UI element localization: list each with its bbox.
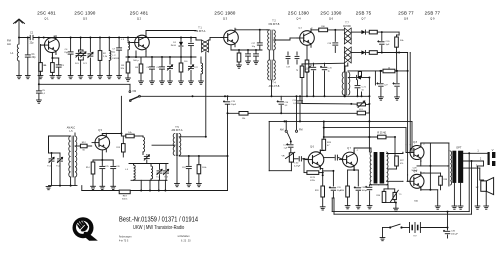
node C5 top <box>38 37 40 39</box>
svg-text:SOL: SOL <box>75 63 80 65</box>
svg-text:6. 23 . 53: 6. 23 . 53 <box>181 241 191 243</box>
wire OPT bars bottom <box>452 183 463 209</box>
wire dr primary bottom <box>372 184 379 186</box>
inductor L1 <box>11 38 22 79</box>
wire Q6 emitter <box>320 167 323 187</box>
wire Q2 collector to rail <box>146 31 196 35</box>
transistor Q6 <box>305 146 324 170</box>
svg-text:FM ZFT-A: FM ZFT-A <box>195 30 206 33</box>
resistor R2 <box>43 53 55 79</box>
wire osc top left <box>49 136 71 153</box>
capacitor C7 <box>111 37 121 79</box>
svg-text:R26: R26 <box>327 142 332 144</box>
wire B plus vertical x369 <box>368 78 370 153</box>
svg-text:C15: C15 <box>231 101 236 103</box>
svg-text:L1: L1 <box>11 51 14 55</box>
svg-text:R13: R13 <box>116 147 121 149</box>
capacitor C20d electro <box>320 63 332 97</box>
label FM Ant <box>7 39 11 46</box>
label C28 <box>412 167 419 172</box>
svg-text:R 8: R 8 <box>359 109 363 111</box>
capacitor C27 electro <box>377 70 389 100</box>
capacitor C8 <box>146 57 154 84</box>
svg-text:0,1: 0,1 <box>42 93 46 95</box>
svg-text:Q 2: Q 2 <box>137 17 142 21</box>
wire main bus 96 <box>140 95 369 97</box>
inductor L4 osc <box>139 136 145 155</box>
svg-text:IN 60: IN 60 <box>171 45 177 47</box>
wire line y127 <box>323 127 406 145</box>
svg-text:50: 50 <box>362 90 365 92</box>
label transistor type 2SB 77 pos8 <box>425 11 441 21</box>
svg-text:30Ω: 30Ω <box>414 201 418 203</box>
wire det top line <box>302 62 344 65</box>
wire speaker top in <box>480 179 484 181</box>
label T2 <box>269 20 280 26</box>
svg-text:C2: C2 <box>30 33 34 35</box>
svg-text:C 30: C 30 <box>294 163 299 165</box>
svg-text:Q 5: Q 5 <box>83 17 88 21</box>
capacitor C34 electro <box>366 185 372 209</box>
inductor L2 <box>107 37 120 79</box>
svg-text:30k: 30k <box>400 40 404 42</box>
wire emitter join <box>323 170 335 172</box>
resistor R14b <box>86 160 96 190</box>
node mw1 <box>128 56 192 58</box>
capacitor variable CV1 <box>88 37 93 79</box>
wire switch up <box>129 84 131 90</box>
svg-text:0,47μF: 0,47μF <box>294 166 301 168</box>
wire speaker bottom <box>484 191 489 209</box>
diode D1 IN60 <box>171 37 183 58</box>
potentiometer VR volume <box>281 152 294 162</box>
resistor R13 33k <box>116 136 125 157</box>
svg-text:10p: 10p <box>252 46 256 48</box>
svg-text:Q 5: Q 5 <box>98 129 103 132</box>
svg-text:R36: R36 <box>376 195 381 197</box>
svg-text:1: 1 <box>477 149 479 152</box>
svg-text:R33: R33 <box>315 190 320 192</box>
wire T3 links <box>343 30 362 66</box>
wire T5 out <box>179 155 228 157</box>
capacitor C5 <box>36 84 45 103</box>
svg-text:L 2: L 2 <box>113 55 117 57</box>
label T5 <box>172 126 183 132</box>
transistor Q9 <box>407 170 425 190</box>
wire line y121 <box>269 120 412 152</box>
svg-text:R 29: R 29 <box>310 177 315 179</box>
svg-text:Q 6: Q 6 <box>329 17 334 21</box>
wire T1 top <box>196 39 210 41</box>
svg-text:C26: C26 <box>116 166 121 168</box>
wire R38 ground drop <box>430 190 440 209</box>
wire ferrite drops <box>141 180 165 190</box>
wire Q7 emitter <box>348 167 359 172</box>
svg-text:FM ZFT-B: FM ZFT-B <box>269 23 280 26</box>
resistor R27 <box>388 156 405 169</box>
wire dr sec bottom <box>387 180 403 182</box>
wire AGC line y113 <box>227 112 358 114</box>
capacitor C33 electro <box>354 170 368 209</box>
wire Q3 emitter bus <box>231 45 262 51</box>
wire Q1 collector <box>43 36 55 39</box>
capacitor trimmer TC2 <box>56 153 62 186</box>
wire Q4 collector <box>311 30 319 32</box>
svg-text:R34: R34 <box>340 190 345 192</box>
logo Quelle Q <box>73 217 98 241</box>
resistor R19 <box>119 190 130 201</box>
svg-text:Q 1: Q 1 <box>44 17 49 21</box>
svg-text:Q 4: Q 4 <box>298 28 302 30</box>
wire T5 bottom <box>175 155 180 186</box>
resistor R38 <box>439 173 448 190</box>
wire Q5 emitter <box>93 150 113 161</box>
svg-text:Änderungen: Änderungen <box>119 235 132 238</box>
wire ripple to bus <box>374 71 376 85</box>
resistor R2b <box>98 37 108 79</box>
label transistor type 2SC 1980 pos3 <box>214 11 235 21</box>
transformer T osc <box>69 136 77 177</box>
capacitor trimmer TC6 <box>188 57 198 84</box>
svg-text:20p: 20p <box>32 56 37 59</box>
svg-text:R2: R2 <box>103 53 107 55</box>
transistor Q2 <box>128 33 149 57</box>
svg-text:2SB 75: 2SB 75 <box>356 11 372 16</box>
label OPT <box>456 146 462 150</box>
svg-text:TC2: TC2 <box>194 67 199 69</box>
transistor Q3 <box>210 28 238 47</box>
svg-text:100μF: 100μF <box>362 190 368 192</box>
wire Q8 collector top <box>421 143 449 151</box>
svg-text:Q 7: Q 7 <box>347 147 352 150</box>
svg-text:2SB 77: 2SB 77 <box>425 11 441 16</box>
resistor R5a <box>179 57 189 84</box>
wire VR return loop <box>269 121 291 170</box>
svg-text:C: C <box>423 144 425 146</box>
wire battery right <box>420 227 448 229</box>
svg-text:UKW | MW Transistor-Radio: UKW | MW Transistor-Radio <box>133 225 185 230</box>
transistor Q7 <box>340 147 359 169</box>
svg-text:FM: FM <box>133 91 136 93</box>
svg-text:C17: C17 <box>251 43 256 45</box>
wire OPT sec 1 <box>463 149 487 154</box>
svg-text:Q 6: Q 6 <box>310 146 315 149</box>
capacitor C16 electro <box>277 96 289 113</box>
transformer DR driver <box>370 152 388 185</box>
label transistor type 2SC 481 pos2 <box>130 11 149 21</box>
svg-text:47: 47 <box>327 145 330 147</box>
capacitor trimmer TC3 <box>163 164 168 181</box>
transformer T4 <box>268 60 276 80</box>
capacitor C16 <box>246 50 251 64</box>
resistor R1 <box>38 45 47 79</box>
svg-text:60: 60 <box>82 150 85 152</box>
antenna <box>14 19 25 38</box>
wire ripple line <box>348 53 409 72</box>
resistor R12b <box>369 51 407 55</box>
capacitor C19c <box>286 52 299 72</box>
resistor R16 <box>358 71 361 79</box>
capacitor C9 <box>156 57 164 84</box>
capacitor C19d electro <box>306 63 315 97</box>
resistor R17 det <box>300 64 310 104</box>
capacitor C31 electro <box>329 171 342 198</box>
wire bottom bus A <box>332 153 469 211</box>
potentiometer AGC <box>351 101 369 108</box>
transistor Q5 <box>92 129 110 152</box>
svg-text:C16: C16 <box>285 102 290 104</box>
label transistor type 2SC 481 pos0 <box>37 11 56 21</box>
resistor R34 <box>340 170 350 209</box>
svg-text:C18: C18 <box>327 43 332 45</box>
svg-text:C24: C24 <box>182 167 187 169</box>
inductor L7 <box>151 164 153 181</box>
subtitle <box>133 225 185 230</box>
svg-text:OPT: OPT <box>456 146 462 150</box>
svg-text:1μF: 1μF <box>386 44 390 46</box>
wire Q6 collector up <box>320 151 324 153</box>
svg-text:C7: C7 <box>112 49 116 51</box>
svg-text:TC3: TC3 <box>164 177 168 179</box>
label transistor type 2SC 1390 pos1 <box>74 11 95 21</box>
svg-text:R14: R14 <box>86 167 91 169</box>
wire Q1 emitter join <box>51 53 53 59</box>
wire Q5 collector <box>102 134 121 136</box>
wire dr sec to Q8 <box>402 151 404 153</box>
label transistor type 2SB 77 pos7 <box>398 11 414 21</box>
svg-text:L 5: L 5 <box>69 131 73 133</box>
svg-text:vorbehalten: vorbehalten <box>178 235 191 238</box>
svg-text:2SC 1390: 2SC 1390 <box>288 11 309 16</box>
diode varicap D SOL <box>75 37 88 79</box>
svg-text:1μ: 1μ <box>308 71 310 73</box>
svg-text:500 p: 500 p <box>133 60 139 62</box>
wire ferrite rod <box>129 163 168 165</box>
wire osc top right <box>74 133 76 136</box>
capacitor C2 series <box>30 33 35 45</box>
wire T1 down vertical <box>205 52 207 137</box>
svg-text:FM RD: FM RD <box>343 25 351 28</box>
wire Q8 base <box>406 145 410 153</box>
svg-text:T 9: T 9 <box>399 194 403 196</box>
label T4 <box>269 82 280 88</box>
wire rail end seg <box>195 38 197 41</box>
svg-text:C5: C5 <box>42 90 46 92</box>
transformer T3 upper <box>344 28 351 44</box>
capacitor trimmer C22 <box>144 155 149 164</box>
svg-text:2SC 481: 2SC 481 <box>130 11 149 16</box>
svg-text:Ant: Ant <box>7 42 11 46</box>
label T3 <box>343 22 351 28</box>
label transistor type 2SC 1390 pos4 <box>288 11 309 21</box>
capacitor C19 at bus <box>292 96 302 121</box>
switch AM pole <box>280 129 292 143</box>
svg-text:C31: C31 <box>337 187 342 189</box>
resistor R20 <box>197 156 207 187</box>
svg-text:R4: R4 <box>135 67 139 69</box>
svg-text:C35: C35 <box>451 231 456 233</box>
svg-text:22p: 22p <box>30 43 35 45</box>
label T1 <box>195 27 206 33</box>
svg-text:4-te 73 S: 4-te 73 S <box>119 240 129 243</box>
wire Q9 emitter line <box>414 188 431 202</box>
wire T5 right top <box>179 136 207 138</box>
capacitor C29 electro <box>283 144 293 153</box>
svg-text:AM ZFT-A: AM ZFT-A <box>172 129 183 132</box>
node q3c <box>259 29 261 31</box>
resistor R15 10k <box>121 132 139 138</box>
capacitor C35 electro <box>443 228 458 239</box>
diode D4 <box>348 75 370 79</box>
svg-text:Q 4: Q 4 <box>296 17 301 21</box>
svg-text:R27: R27 <box>400 160 405 162</box>
svg-text:Q 3: Q 3 <box>223 17 228 21</box>
wire jack 3 to speaker <box>479 168 481 180</box>
svg-text:100k: 100k <box>202 167 206 169</box>
capacitor C27a electro <box>393 70 399 100</box>
label C30 <box>294 163 301 168</box>
wire T5 left <box>152 144 175 146</box>
capacitor C8a 500p <box>133 51 139 62</box>
note left <box>119 235 132 242</box>
resistor R8 <box>357 104 369 114</box>
capacitor C16b <box>254 50 259 64</box>
capacitor C25 <box>100 160 110 190</box>
capacitor C18 <box>327 30 337 53</box>
svg-text:C28: C28 <box>413 167 418 169</box>
label transistor type 2SC 1390 pos5 <box>320 11 341 21</box>
wire osc bottom <box>46 177 77 190</box>
label osc coil <box>67 127 76 133</box>
wire R29 to base <box>303 158 305 173</box>
wire Q7 collector <box>354 148 371 153</box>
resistor R11 <box>305 60 313 72</box>
wire MW bus <box>126 56 196 58</box>
wire bus up x361 <box>361 92 363 96</box>
battery B1 9V <box>410 223 421 238</box>
switch FM pole <box>295 129 302 133</box>
svg-text:3,3: 3,3 <box>285 105 289 107</box>
resistor R3 <box>120 50 130 81</box>
resistor R12a <box>369 30 399 34</box>
wire battery left <box>380 228 385 241</box>
capacitor C21 <box>355 80 367 97</box>
svg-text:10μF: 10μF <box>231 104 237 106</box>
svg-text:Q 8: Q 8 <box>413 141 418 144</box>
wire det down x407 <box>407 53 409 175</box>
svg-text:C19: C19 <box>286 67 291 69</box>
wire OPT sec 3 <box>463 165 480 169</box>
resistor R14 1k <box>383 67 395 72</box>
transformer T6 det <box>342 63 350 97</box>
resistor R4 <box>135 57 143 84</box>
wire det down x410 <box>409 53 411 145</box>
wire agc line <box>302 103 370 105</box>
svg-text:C4: C4 <box>65 49 69 51</box>
wire dr sec top <box>387 153 403 154</box>
svg-text:1μ: 1μ <box>328 71 330 73</box>
svg-text:TC4: TC4 <box>156 177 160 179</box>
svg-text:Q 7: Q 7 <box>361 17 366 21</box>
resistor R10 330 <box>319 26 343 32</box>
wire sw to C29 <box>290 142 292 144</box>
capacitor trimmer TC4 <box>156 164 162 181</box>
capacitor C10 <box>189 37 194 58</box>
svg-text:AM A1C: AM A1C <box>67 127 76 130</box>
svg-text:C20: C20 <box>386 41 391 43</box>
svg-text:10k: 10k <box>128 132 132 134</box>
transistor Q1 <box>41 36 60 55</box>
svg-text:Q 8: Q 8 <box>404 17 409 21</box>
svg-text:10p: 10p <box>111 52 115 54</box>
wire OPT left join <box>448 165 449 167</box>
svg-text:1 μF: 1 μF <box>283 147 288 149</box>
resistor R26 <box>322 121 332 151</box>
svg-text:Q 9: Q 9 <box>430 17 435 21</box>
svg-text:L 6: L 6 <box>125 169 129 171</box>
svg-text:AM: AM <box>280 129 284 132</box>
wire bias bottoms <box>379 185 399 212</box>
node bus dots <box>192 95 363 97</box>
svg-text:D1: D1 <box>173 42 177 44</box>
svg-text:2SC 481: 2SC 481 <box>37 11 56 16</box>
wire Q4 emitter <box>306 45 308 97</box>
capacitor C17 <box>251 30 262 50</box>
svg-text:R3: R3 <box>121 65 125 67</box>
resistor R13 30k <box>395 32 405 52</box>
diode D2 <box>361 30 369 34</box>
wire battery up <box>447 211 449 228</box>
svg-text:100: 100 <box>184 61 188 63</box>
svg-text:C3: C3 <box>61 65 65 67</box>
wire Q9 base <box>408 175 410 181</box>
svg-text:2SC 1390: 2SC 1390 <box>320 11 341 16</box>
svg-text:C25: C25 <box>105 166 110 168</box>
wire switch verticals <box>285 95 297 130</box>
svg-text:L 3: L 3 <box>121 39 125 41</box>
svg-text:C27: C27 <box>384 85 389 87</box>
svg-text:SP: SP <box>476 187 479 189</box>
switch FM band <box>129 91 140 102</box>
capacitor trimmer TC1 <box>47 153 54 186</box>
svg-text:470k: 470k <box>310 180 316 182</box>
resistor R12 60 <box>75 142 92 152</box>
wire OPT sec 2 <box>463 158 483 162</box>
capacitor C20 1uF <box>378 32 391 53</box>
diode D3 <box>361 50 369 54</box>
note right <box>178 235 192 243</box>
svg-text:200 μF: 200 μF <box>451 234 459 236</box>
speaker SP <box>476 178 494 195</box>
resistor R33 <box>315 174 325 210</box>
inductor L3 <box>121 37 130 51</box>
svg-text:9 V: 9 V <box>413 236 417 238</box>
capacitor C24 <box>182 156 191 187</box>
svg-text:47k: 47k <box>400 163 403 165</box>
svg-text:AM1 FT-B: AM1 FT-B <box>269 85 280 88</box>
svg-text:2,2k: 2,2k <box>103 56 108 58</box>
inductor L4a <box>199 57 204 84</box>
svg-text:1μ: 1μ <box>296 70 298 72</box>
wire Q9 collector line <box>421 172 441 173</box>
transformer T1 <box>202 40 209 52</box>
wire jack 2 <box>475 161 483 209</box>
wire Q6-Q7 coupling <box>324 155 343 160</box>
capacitor C26 <box>111 160 121 190</box>
wire vert x430 <box>429 143 431 190</box>
wire bottom bus B <box>334 160 473 214</box>
capacitor C3 <box>52 58 64 79</box>
